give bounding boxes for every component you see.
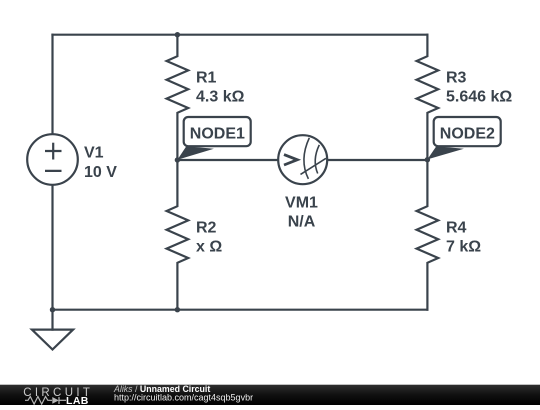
node NODE2 junction [425, 157, 430, 162]
svg-text:10 V: 10 V [84, 164, 117, 181]
wire VM1 to node2 [327, 159, 427, 161]
svg-text:x Ω: x Ω [196, 239, 222, 256]
svg-text:VM1: VM1 [285, 195, 318, 212]
resistor R4 [417, 160, 439, 310]
svg-text:7 kΩ: 7 kΩ [446, 239, 481, 256]
svg-text:LAB: LAB [66, 395, 89, 405]
node NODE1 label balloon [177, 117, 250, 160]
svg-text:V1: V1 [84, 145, 104, 162]
svg-text:5.646 kΩ: 5.646 kΩ [446, 89, 512, 106]
svg-text:R2: R2 [196, 220, 217, 237]
wire left rail lower [51, 185, 53, 310]
label V1 value [84, 70, 512, 256]
node NODE1 junction [175, 157, 180, 162]
footer bar [0, 384, 540, 407]
node bottom mid junction [175, 307, 180, 312]
svg-text:http://circuitlab.com/cagt4sqb: http://circuitlab.com/cagt4sqb5gvbr [114, 392, 253, 402]
svg-text:4.3 kΩ: 4.3 kΩ [196, 89, 245, 106]
svg-text:R1: R1 [196, 70, 217, 87]
svg-text:R3: R3 [446, 70, 467, 87]
wire bottom rail [53, 309, 428, 311]
resistor R3 [417, 35, 439, 160]
svg-text:R4: R4 [446, 220, 467, 237]
ground [32, 330, 73, 350]
voltage source V1 [27, 134, 78, 185]
node NODE2 label balloon [427, 117, 500, 159]
node A top junction [175, 32, 180, 37]
voltmeter VM1 [278, 135, 327, 184]
wire left rail upper [51, 35, 53, 135]
svg-text:N/A: N/A [288, 214, 316, 231]
resistor R1 [167, 35, 189, 160]
svg-text:NODE2: NODE2 [440, 126, 495, 143]
resistor R2 [167, 160, 189, 310]
ground lead [51, 310, 53, 330]
logo resistor-diode glyph [25, 397, 66, 405]
wire top rail [53, 34, 428, 36]
node ground junction [50, 307, 55, 312]
svg-text:NODE1: NODE1 [190, 126, 245, 143]
wire node1 to VM1 [177, 159, 278, 161]
